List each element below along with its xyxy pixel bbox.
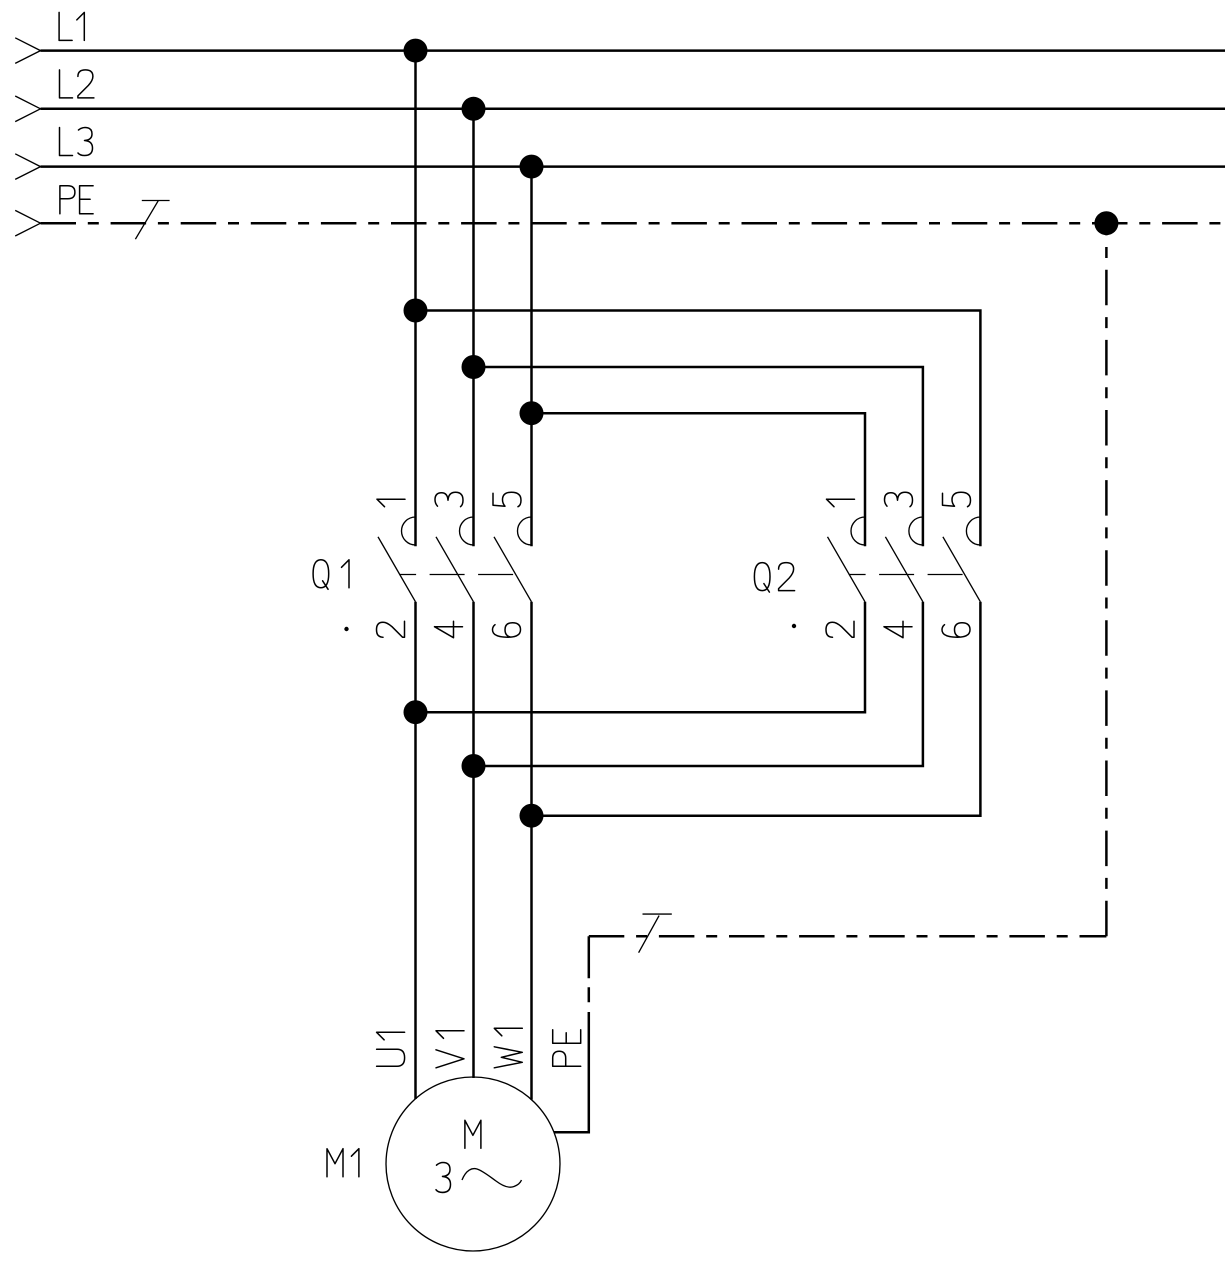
wire PE drop to motor [554,1012,589,1132]
junction dot branch L1 [404,299,428,323]
breaker Q1 label [313,560,349,590]
Q1 insertion point dot [344,627,348,631]
motor symbol digit 3 [436,1163,451,1193]
node L3 label [60,128,93,156]
Q2 pole 1-2 moving contact lever [828,537,866,602]
Q1 pole 5-6 moving contact lever [494,537,532,602]
node L1 label [59,12,84,40]
Q2 pole 3-4 moving contact lever [885,537,923,602]
junction dot branch L3 [520,401,544,425]
junction dot PE tap [1094,211,1118,235]
wire Q2 pin 4 to node V [474,602,923,766]
Q2 pin 4 label [884,621,912,638]
junction dot L3 tap [520,155,544,179]
Q1 pole 5-6 fixed contact arc [518,517,532,545]
wire L3 bus [41,165,1225,168]
Q1 mechanical linkage (dashed) [399,574,515,576]
Q1 pole 1-2 fixed contact arc [402,517,416,545]
junction dot L1 tap [404,39,428,63]
Q2 pin 1 label [827,499,855,507]
wire Q2 pin 2 to node U [416,602,866,712]
junction dot node V [462,754,486,778]
junction dot node W [520,804,544,828]
Q2 mechanical linkage (dashed) [849,574,965,576]
Q2 pin 3 label [885,492,913,507]
node PE label [60,186,93,214]
Q1 pole 3-4 fixed contact arc [460,517,474,545]
wire branch L1 to Q2 pin 5 [416,311,981,547]
junction dot node U [404,700,428,724]
PE function symbol (slash) on PE bus [135,201,169,240]
Q1 pin 6 label [493,623,521,638]
Q1 pin 4 label [435,621,463,638]
wire L1 bus [41,49,1225,52]
motor terminal V1 label [436,1031,464,1068]
Q1 pin 2 label [377,621,405,637]
arrow L3 source [15,154,40,180]
wire PE riser (dash-dot) [1105,223,1108,936]
motor terminal W1 label [494,1028,522,1068]
Q2 pin 6 label [942,623,970,638]
breaker Q2 label [754,563,794,593]
wire PE horizontal run (dash-dot) [589,935,1107,938]
motor terminal U1 label [377,1032,405,1066]
wire PE bus (dash-dot) [41,222,1225,225]
Q1 pin 5 label [493,492,521,507]
motor terminal PE label [553,1030,581,1067]
Q2 pole 5-6 moving contact lever [943,537,981,602]
wire branch L3 to Q2 pin 1 [532,413,866,546]
junction dot L2 tap [462,97,486,121]
motor symbol letter M [465,1120,481,1148]
wire L2 bus [41,108,1225,111]
Q1 pin 1 label [377,499,405,507]
node L2 label [60,70,94,98]
wire Q1 pin 2 to motor U1 [414,602,417,1099]
Q2 pin 5 label [943,492,971,507]
wire phase A from L1 to Q1 pin 1 [414,51,417,547]
arrow L2 source [15,96,40,122]
Q2 pole 1-2 fixed contact arc [851,517,865,545]
motor M1 label [327,1149,359,1177]
wire Q2 pin 6 to node W [532,602,981,816]
Q2 pole 5-6 fixed contact arc [966,517,980,545]
Q1 pin 3 label [435,492,463,507]
motor symbol AC tilde [462,1169,522,1188]
Q2 pin 2 label [826,621,854,637]
wire phase C from L3 to Q1 pin 5 [530,167,533,547]
arrow L1 source [15,38,40,64]
wire phase B from L2 to Q1 pin 3 [472,109,475,547]
junction dot branch L2 [462,355,486,379]
motor M1 circle [386,1077,560,1251]
wire branch L2 to Q2 pin 3 [474,367,923,546]
Q2 insertion point dot [792,624,796,628]
PE function symbol (slash) on PE run [639,914,672,953]
Q1 pole 3-4 moving contact lever [436,537,474,602]
wire PE drop (dash-dot) [588,936,591,1013]
wire Q1 pin 4 to motor V1 [472,602,475,1078]
Q2 pole 3-4 fixed contact arc [909,517,923,545]
wire Q1 pin 6 to motor W1 [530,602,533,1100]
arrow PE source [15,210,40,236]
Q1 pole 1-2 moving contact lever [378,537,416,602]
